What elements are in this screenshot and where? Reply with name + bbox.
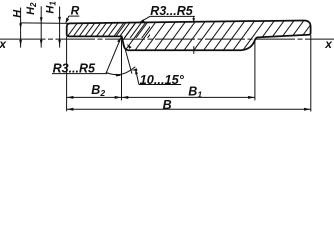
dimension H2 xyxy=(25,2,42,48)
dimension B2 xyxy=(67,83,122,99)
hatch main body xyxy=(100,13,334,58)
node x label left xyxy=(0,37,7,51)
radius label R with leader xyxy=(66,4,80,24)
dimension H xyxy=(12,8,24,48)
dimension B xyxy=(67,98,311,112)
arrow on slope line xyxy=(127,44,132,49)
extension line right transition (B1) xyxy=(254,39,256,101)
svg-text:x: x xyxy=(324,37,333,51)
angle reference vertical line (also B2/B1 extension) xyxy=(121,36,123,100)
top extension line xyxy=(20,22,70,25)
angle arc with arrows xyxy=(107,67,138,77)
tick below bottom edge at x=206 xyxy=(193,46,195,54)
part outline (stepped strip cross-section) xyxy=(67,20,311,50)
node x label right xyxy=(324,37,333,51)
angle label 10...15deg xyxy=(135,69,185,87)
hatch left thin strip xyxy=(56,14,177,52)
extension line left (B2/B) xyxy=(66,37,68,112)
svg-text:R: R xyxy=(71,4,80,18)
svg-text:H: H xyxy=(12,9,24,18)
radius label R3...R5 bottom with leader to slope vertex xyxy=(52,37,121,75)
dimension H1 xyxy=(44,1,61,48)
dimension B1 xyxy=(122,85,255,100)
angle slope extension line xyxy=(122,36,132,73)
axis x-x centerline xyxy=(0,38,334,40)
svg-text:B: B xyxy=(163,98,172,112)
extension line right end (B) xyxy=(310,35,312,112)
radius label R3...R5 top with leaders xyxy=(139,4,195,23)
